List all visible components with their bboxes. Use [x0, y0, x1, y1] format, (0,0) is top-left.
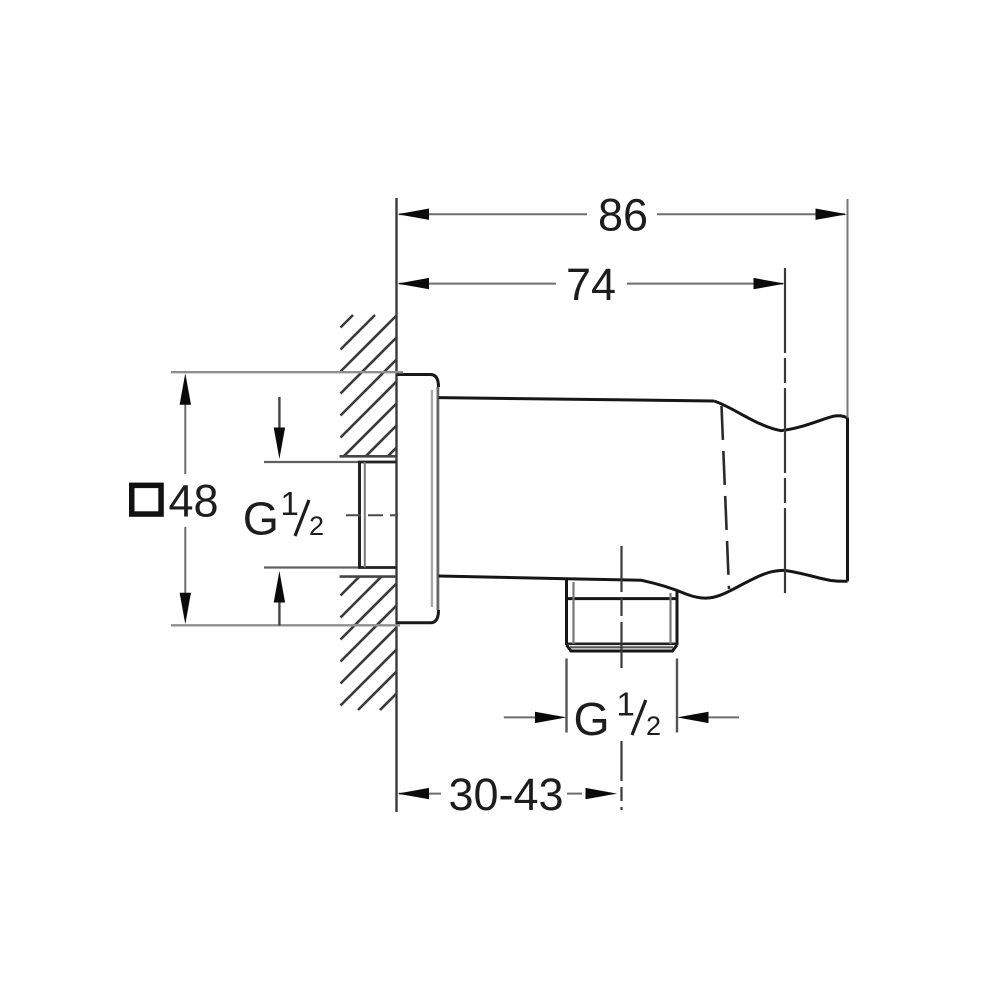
svg-text:1: 1: [617, 686, 635, 723]
svg-text:2: 2: [646, 711, 661, 741]
svg-text:1: 1: [281, 485, 299, 522]
svg-text:74: 74: [566, 259, 616, 310]
svg-text:2: 2: [309, 511, 324, 541]
svg-text:G: G: [243, 493, 279, 545]
svg-text:30-43: 30-43: [448, 769, 563, 820]
svg-text:48: 48: [169, 476, 219, 527]
svg-text:86: 86: [598, 190, 648, 241]
svg-text:G: G: [574, 693, 610, 745]
